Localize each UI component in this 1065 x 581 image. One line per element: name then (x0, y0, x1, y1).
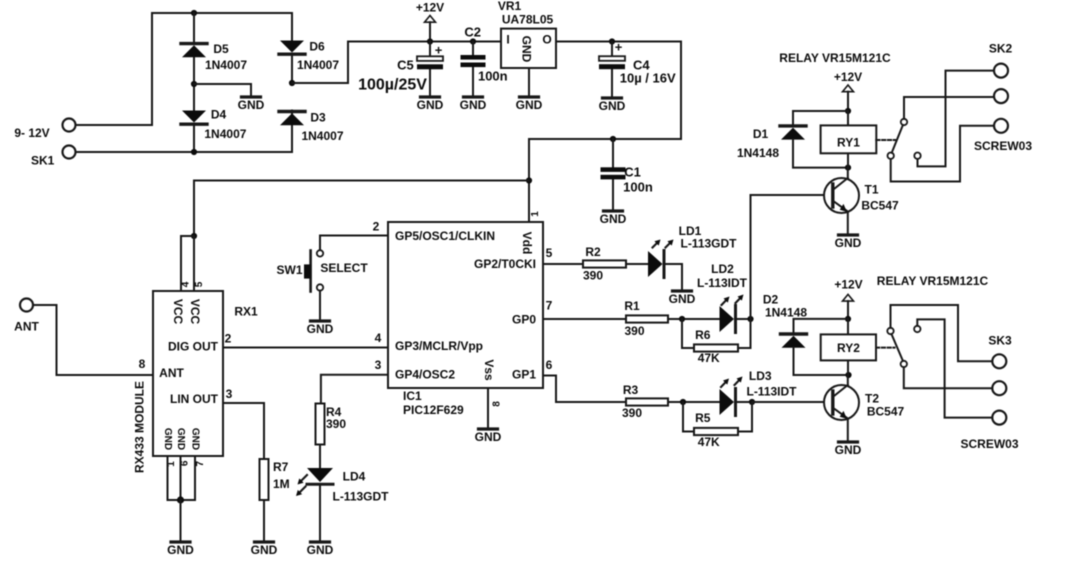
wire RX gnd down (180, 500, 182, 540)
module RX433 rotated name (133, 381, 147, 473)
svg-text:L-113IDT: L-113IDT (746, 384, 797, 398)
label RELAY VR15M121C (bottom) (877, 274, 989, 288)
diode D6 1N4007 (279, 40, 339, 72)
svg-text:390: 390 (583, 268, 603, 282)
node rail at C2 (470, 38, 476, 44)
svg-text:8: 8 (492, 401, 503, 407)
svg-text:LD3: LD3 (749, 369, 772, 383)
svg-text:DIG OUT: DIG OUT (168, 340, 219, 354)
ground (R7) (251, 542, 278, 557)
svg-text:9- 12V: 9- 12V (14, 126, 49, 140)
wire D1 branch top (793, 111, 848, 124)
svg-text:SK1: SK1 (31, 153, 55, 167)
resistor R1 390 (624, 299, 668, 338)
ground (C4) (599, 98, 626, 113)
svg-text:D5: D5 (213, 42, 229, 56)
wire ANT to RX module pin 8 (33, 305, 153, 375)
svg-text:UA78L05: UA78L05 (502, 13, 554, 27)
wire LIN OUT to R7 (223, 403, 264, 459)
svg-text:RELAY VR15M121C: RELAY VR15M121C (877, 274, 989, 288)
svg-text:3: 3 (226, 387, 233, 401)
svg-text:GND: GND (238, 98, 265, 112)
wire IC pin5 to R2 (543, 263, 583, 265)
pin GP0 label (512, 299, 553, 327)
svg-text:390: 390 (326, 417, 346, 431)
svg-text:RY2: RY2 (837, 341, 860, 355)
svg-text:Vss: Vss (482, 359, 496, 381)
node bridge mid-left (GND) (191, 81, 197, 87)
wire DIG OUT to IC pin 4 (223, 347, 388, 349)
svg-text:+: + (615, 40, 623, 55)
svg-text:4: 4 (375, 331, 382, 345)
terminal 9-12V (SK1 pin 1) (14, 119, 75, 141)
terminal SK2 (974, 42, 1032, 153)
wire T1 emitter to gnd (847, 212, 849, 234)
svg-text:GND: GND (167, 543, 194, 557)
switch SW1 SELECT (276, 250, 368, 291)
svg-text:390: 390 (622, 406, 642, 420)
wire SK3 terminal3 to NO contact (917, 319, 992, 417)
ground (RX1) (167, 542, 194, 557)
svg-text:100n: 100n (623, 180, 653, 195)
wire R3 to LD3 (668, 401, 720, 403)
svg-text:7: 7 (546, 299, 553, 313)
pin ANT label (139, 357, 185, 380)
terminal ANT (14, 299, 39, 334)
svg-text:5: 5 (194, 281, 205, 287)
resistor R4 390 (316, 404, 347, 445)
svg-text:SCREW03: SCREW03 (974, 139, 1032, 153)
pin 2 label (IC1) (373, 220, 380, 234)
relay coil RY1 (821, 111, 877, 168)
svg-text:GP5/OSC1/CLKIN: GP5/OSC1/CLKIN (395, 229, 495, 243)
wire SK3 terminal1 to NC contact (891, 305, 993, 361)
node Vdd junction (526, 177, 532, 183)
svg-text:L-113IDT: L-113IDT (697, 276, 748, 290)
svg-text:R2: R2 (585, 245, 601, 259)
wire VCC pins bracket (181, 236, 194, 291)
power +12V symbol (RY2) (834, 277, 862, 319)
wire VR1 gnd stub (528, 68, 530, 95)
svg-text:R7: R7 (273, 460, 289, 474)
pin Vss label (482, 359, 503, 406)
ground (LD4) (307, 542, 334, 557)
wire IC pin6 to R3 (543, 376, 626, 403)
wire RY1 dashed link (876, 139, 895, 141)
wire IC pin7 to R1 (543, 318, 626, 320)
svg-text:R5: R5 (695, 411, 711, 425)
wire LD1 to gnd (664, 264, 682, 289)
transistor T1 BC547 (824, 168, 899, 213)
svg-text:R6: R6 (695, 328, 711, 342)
ground (C1) (600, 211, 627, 226)
pin DIG OUT label (168, 332, 232, 354)
node bridge bottom junction (191, 149, 197, 155)
svg-text:1N4148: 1N4148 (765, 305, 807, 319)
svg-text:SK2: SK2 (989, 42, 1013, 56)
diode D4 1N4007 (181, 108, 247, 141)
svg-text:IC1: IC1 (403, 389, 422, 403)
svg-text:GND: GND (516, 98, 543, 112)
svg-text:GP2/T0CKI: GP2/T0CKI (474, 257, 536, 271)
svg-text:SK3: SK3 (988, 334, 1012, 348)
svg-text:GND: GND (460, 98, 487, 112)
svg-text:RX433 MODULE: RX433 MODULE (133, 381, 147, 473)
svg-text:L-113GDT: L-113GDT (680, 237, 737, 251)
svg-text:T2: T2 (865, 391, 879, 405)
wire input+ to bridge top (76, 13, 293, 125)
svg-text:VCC: VCC (188, 299, 202, 325)
svg-text:SELECT: SELECT (320, 261, 368, 275)
svg-text:GND: GND (307, 322, 334, 336)
svg-text:1N4007: 1N4007 (297, 58, 339, 72)
svg-text:GP3/MCLR/Vpp: GP3/MCLR/Vpp (395, 339, 483, 353)
svg-text:GND: GND (520, 36, 534, 63)
led LD2 L-113IDT (697, 262, 748, 333)
node RY1 bottom junction (845, 165, 851, 171)
wire SK2 terminal2 to common (904, 97, 994, 119)
ic IC1 labels (403, 389, 464, 417)
ground (SW1) (307, 321, 334, 336)
ground (LD1) (669, 291, 696, 306)
wire SK2 terminal1 to NO contact (918, 71, 995, 167)
svg-text:GND: GND (417, 98, 444, 112)
relay RY1 switch contacts (888, 119, 921, 159)
ground (T2) (835, 442, 862, 457)
svg-text:LD2: LD2 (711, 262, 734, 276)
svg-text:BC547: BC547 (867, 405, 905, 419)
diode D2 1N4148 (763, 292, 808, 347)
svg-text:GND: GND (162, 428, 173, 450)
node rail at C4 (609, 38, 615, 44)
pin GP4/OSC2 label (395, 368, 455, 382)
capacitor C1 100n (601, 139, 653, 209)
svg-text:D2: D2 (763, 292, 779, 306)
pin GP5/OSC1/CLKIN label (395, 229, 495, 243)
svg-text:Vdd: Vdd (520, 232, 534, 255)
node rail at C5 (427, 38, 433, 44)
transistor T2 BC547 (824, 375, 905, 420)
svg-text:100µ/25V: 100µ/25V (358, 77, 427, 94)
svg-text:LIN OUT: LIN OUT (170, 392, 219, 406)
wire LD4 to gnd (319, 486, 321, 540)
capacitor C4 10u/16V (599, 40, 676, 97)
wire D6 column (291, 13, 293, 152)
svg-text:47K: 47K (698, 351, 720, 365)
regulator VR1 labels (498, 0, 554, 27)
svg-text:3: 3 (375, 358, 382, 372)
svg-text:BC547: BC547 (861, 199, 899, 213)
svg-text:D1: D1 (753, 127, 769, 141)
svg-text:GP0: GP0 (512, 312, 536, 326)
wire LD2 junction to T1 base (751, 195, 832, 319)
wire R7 to gnd (263, 500, 265, 540)
svg-text:100n: 100n (478, 69, 508, 84)
wire D1 bottom (793, 140, 848, 168)
svg-text:D6: D6 (309, 40, 325, 54)
ground (C2) (460, 97, 487, 112)
svg-text:C2: C2 (464, 25, 481, 40)
wire IC pin3 to R4 (321, 375, 388, 404)
wire SK3 terminal2 to common (904, 367, 992, 388)
svg-text:1N4007: 1N4007 (301, 129, 343, 143)
resistor R3 390 (622, 383, 668, 420)
svg-text:ANT: ANT (159, 366, 184, 380)
pin GP3/MCLR/Vpp label (395, 339, 483, 353)
svg-text:+12V: +12V (834, 277, 862, 291)
svg-text:4: 4 (181, 281, 192, 287)
resistor R7 1M (260, 459, 290, 500)
node RX gnd junction (177, 496, 184, 503)
svg-text:O: O (542, 32, 551, 46)
svg-text:SW1: SW1 (276, 263, 302, 277)
node R6 left junction (679, 316, 685, 322)
svg-text:GND: GND (669, 292, 696, 306)
node RY1 top junction (845, 108, 851, 114)
svg-text:GP4/OSC2: GP4/OSC2 (395, 368, 455, 382)
pin LIN OUT label (170, 387, 233, 406)
svg-text:47K: 47K (698, 435, 720, 449)
wire D2 bottom (794, 348, 849, 375)
pin VCC labels (171, 299, 202, 325)
node RY2 top junction (845, 316, 851, 322)
led LD1 L-113GDT (648, 224, 737, 278)
svg-text:GND: GND (190, 428, 201, 450)
svg-text:GND: GND (835, 236, 862, 250)
node LD3 cathode junction (749, 399, 755, 405)
node VCC pins junction (191, 233, 197, 239)
pin 4 label (RX1) (181, 281, 192, 287)
terminal SK3 (960, 334, 1018, 451)
svg-text:RELAY VR15M121C: RELAY VR15M121C (779, 51, 891, 65)
node C1 junction (610, 136, 616, 142)
diode D5 1N4007 (181, 42, 247, 72)
svg-text:8: 8 (139, 357, 146, 371)
svg-text:+12V: +12V (834, 70, 862, 84)
wire SW1 to gnd (319, 291, 321, 319)
relay RY2 switch contacts (887, 326, 920, 367)
svg-text:R1: R1 (624, 299, 640, 313)
svg-text:+12V: +12V (416, 1, 444, 15)
node bridge top junction (191, 10, 197, 16)
node R5 left junction (680, 399, 686, 405)
svg-text:GND: GND (600, 212, 627, 226)
resistor R5 47K parallel loop (683, 402, 752, 449)
svg-text:7: 7 (195, 460, 206, 466)
wire RY2 dashed link (876, 347, 895, 349)
ground (C5) (417, 97, 444, 112)
pin Vdd label (520, 211, 541, 255)
svg-text:6: 6 (546, 358, 553, 372)
svg-text:10µ / 16V: 10µ / 16V (620, 70, 676, 85)
wire mid-left to GND (194, 84, 251, 95)
led LD3 L-113IDT (720, 369, 798, 416)
ground (IC1) (475, 429, 502, 444)
svg-text:PIC12F629: PIC12F629 (403, 403, 464, 417)
wire LD3 to junction (736, 401, 753, 403)
power +12V symbol (C5) (416, 1, 444, 42)
svg-text:LD4: LD4 (343, 470, 366, 484)
ground (T1) (835, 235, 862, 250)
pin GP2/T0CKI label (474, 246, 553, 271)
wire rail VR1 out to corner (529, 42, 681, 140)
svg-text:1M: 1M (273, 477, 290, 491)
svg-text:GND: GND (307, 543, 334, 557)
wire bridge output to +12V rail (292, 42, 501, 84)
svg-text:1: 1 (530, 211, 541, 217)
svg-text:GND: GND (475, 430, 502, 444)
wire SK1 to bridge bottom (76, 151, 293, 153)
wire LD3 junction to T2 base (752, 401, 831, 403)
pin 4 label (IC1) (375, 331, 382, 345)
regulator VR1 UA78L05 (501, 29, 556, 68)
svg-text:VCC: VCC (171, 299, 185, 325)
wire D5 column (193, 13, 195, 152)
svg-text:GND: GND (599, 99, 626, 113)
pin GP1 label (512, 358, 553, 381)
node bridge mid-right (+V) (289, 80, 295, 86)
diode D3 1N4007 (279, 110, 344, 143)
wire Vdd horizontal to RX module (194, 181, 529, 237)
resistor R2 390 (583, 245, 626, 282)
power +12V symbol (RY1) (834, 70, 862, 111)
module RX1 RX433 box (153, 291, 258, 456)
svg-text:2: 2 (225, 332, 232, 346)
wire D2 branch top (794, 319, 849, 332)
svg-text:1N4007: 1N4007 (205, 58, 247, 72)
svg-text:GP1: GP1 (512, 367, 536, 381)
terminal SK1 (pin 2) (31, 146, 75, 168)
ic IC1 PIC12F629 box (388, 222, 543, 388)
svg-text:I: I (506, 32, 509, 46)
pin 3 label (IC1) (375, 358, 382, 372)
svg-text:L-113GDT: L-113GDT (332, 490, 389, 504)
svg-text:1N4007: 1N4007 (204, 127, 246, 141)
wire LD2 to junction (736, 318, 751, 320)
svg-text:RY1: RY1 (837, 136, 860, 150)
ground (bridge) (238, 97, 265, 112)
wire T2 emitter to gnd (847, 419, 849, 441)
resistor R6 47K parallel loop (682, 319, 751, 365)
svg-text:ANT: ANT (14, 319, 39, 333)
wire R2 to LD1 (626, 263, 648, 265)
svg-text:GND: GND (251, 543, 278, 557)
svg-text:R3: R3 (623, 383, 639, 397)
pin 1 6 7 labels (RX1) (166, 460, 206, 467)
relay coil RY2 (821, 319, 876, 375)
pin GND labels (RX1) (162, 428, 201, 450)
wire Vdd vertical to IC pin 1 (528, 139, 530, 222)
diode D1 1N4148 (737, 126, 806, 160)
pin 5 label (RX1) (194, 281, 205, 287)
svg-text:D3: D3 (310, 110, 326, 124)
svg-text:+: + (435, 43, 443, 58)
svg-text:T1: T1 (864, 182, 878, 196)
svg-text:GND: GND (835, 443, 862, 457)
wire R1 to LD2 (668, 318, 720, 320)
svg-text:RX1: RX1 (234, 304, 258, 318)
wire IC pin8 gnd stub (487, 388, 489, 427)
wire R4 to LD4 (319, 445, 321, 469)
svg-text:GND: GND (175, 428, 186, 450)
wire IC pin2 to SW1 (320, 236, 388, 251)
node LD2 cathode junction (747, 316, 753, 322)
svg-text:5: 5 (546, 246, 553, 260)
svg-text:2: 2 (373, 220, 380, 234)
svg-text:D4: D4 (211, 108, 227, 122)
wire SK2 terminal3 to NC contact (891, 126, 994, 182)
svg-text:1N4148: 1N4148 (737, 146, 779, 160)
label RELAY VR15M121C (top) (779, 51, 891, 65)
capacitor C5 100u/25V (358, 42, 443, 96)
svg-text:390: 390 (624, 324, 644, 338)
svg-text:C1: C1 (624, 165, 641, 180)
svg-text:SCREW03: SCREW03 (960, 437, 1018, 451)
wire RX gnd pins (168, 456, 196, 500)
ground (VR1) (516, 97, 543, 112)
capacitor C2 100n (461, 25, 508, 96)
svg-text:VR1: VR1 (498, 0, 522, 13)
svg-text:C5: C5 (397, 58, 414, 73)
node RY2 bottom junction (845, 372, 851, 378)
led LD4 L-113GDT (296, 468, 389, 504)
